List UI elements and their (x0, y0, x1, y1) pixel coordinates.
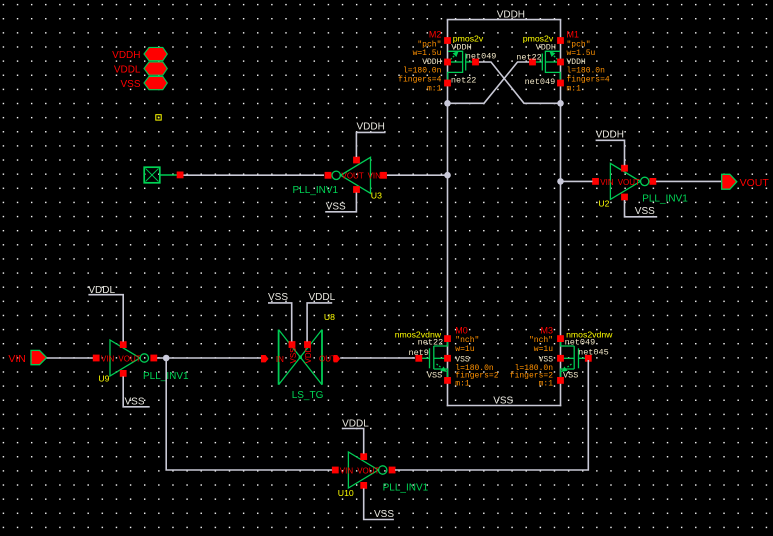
svg-text:VSS: VSS (493, 395, 513, 406)
svg-text:l=180.0n: l=180.0n (567, 67, 606, 76)
junction left column cross (444, 100, 451, 107)
svg-text:M3: M3 (540, 325, 553, 335)
svg-text:VSS: VSS (289, 347, 298, 363)
M3 drain pin (557, 335, 564, 342)
svg-text:VIN: VIN (8, 353, 26, 365)
svg-text:VDDH: VDDH (536, 42, 556, 52)
svg-text:"nch": "nch" (529, 336, 553, 345)
M0 source pin (444, 377, 451, 384)
svg-text:VDDH: VDDH (497, 9, 525, 20)
svg-text:U3: U3 (371, 190, 382, 200)
svg-text:PLL_INV1: PLL_INV1 (642, 194, 688, 205)
U8 VSS stub (268, 292, 292, 341)
U10 VDDL stub (342, 418, 369, 453)
svg-text:net22: net22 (418, 338, 444, 348)
svg-text:"pch": "pch" (567, 40, 591, 49)
svg-text:U8: U8 (324, 312, 335, 322)
U2 VDDH stub (596, 129, 625, 165)
svg-text:VDDL: VDDL (342, 418, 369, 429)
svg-text:VSS: VSS (125, 396, 145, 407)
inverter U2 (output right) (592, 163, 688, 208)
M1 gate pin (529, 59, 536, 66)
M2 bulk pin (444, 59, 451, 66)
transmission gate U8 LS_TG (261, 312, 340, 401)
svg-text:U9: U9 (98, 374, 109, 384)
M3 bulk pin (557, 355, 564, 362)
svg-text:IN: IN (276, 355, 284, 364)
wire U3 input to net22 vertical (387, 174, 448, 176)
svg-text:VDDH: VDDH (357, 122, 385, 133)
U3 VSS stub (325, 193, 356, 213)
junction net22 / U3 (444, 172, 451, 179)
M2 gate pin (472, 59, 479, 66)
svg-text:l=180.0n: l=180.0n (403, 67, 442, 76)
cross-coupling wire M1 gate to left column (448, 62, 530, 103)
svg-text:U2: U2 (598, 198, 609, 208)
inverter U10 (332, 452, 429, 498)
M3 property labels (510, 325, 553, 388)
svg-text:VIN: VIN (368, 172, 382, 181)
M2 property labels (398, 30, 441, 94)
junction U9 output / feed down (163, 355, 170, 362)
wire noConn to U3 output (184, 174, 325, 176)
transistor M2 (pmos2v, left) (448, 51, 473, 81)
svg-text:VIN: VIN (101, 354, 115, 363)
U10 VSS stub (364, 488, 395, 520)
svg-text:m:1: m:1 (427, 84, 442, 93)
junction right column cross (557, 100, 564, 107)
M0 property labels (455, 325, 498, 388)
M2 drain pin (444, 80, 451, 87)
port VIN (8, 350, 46, 365)
svg-text:net9: net9 (408, 348, 428, 358)
svg-text:OUT: OUT (319, 355, 336, 364)
svg-text:VOUT: VOUT (618, 178, 640, 187)
svg-text:net045: net045 (578, 348, 609, 358)
power pin VDDH (hexagon port) (112, 47, 167, 61)
svg-text:VOUT: VOUT (118, 354, 140, 363)
svg-text:VDDL: VDDL (309, 292, 336, 303)
svg-text:net049: net049 (525, 77, 556, 87)
svg-text:PLL_INV1: PLL_INV1 (293, 185, 339, 196)
svg-text:VDDH: VDDH (567, 58, 586, 67)
cross-coupling wire M2 gate to right column (479, 62, 561, 103)
wire U2 output to VOUT port (656, 180, 722, 182)
svg-text:VIN: VIN (600, 178, 614, 187)
svg-text:VSS: VSS (563, 371, 578, 381)
transistor M1 (pmos2v, right, mirrored) (535, 51, 560, 81)
svg-text:VDDH: VDDH (422, 58, 441, 67)
svg-text:net049: net049 (565, 338, 596, 348)
transistor M3 (nmos2vdnw, right, mirrored) (561, 339, 587, 377)
M2 source pin (444, 37, 451, 44)
svg-text:U10: U10 (338, 488, 354, 498)
svg-text:M0: M0 (455, 325, 468, 335)
wire LS_TG output to M0 gate (340, 357, 415, 359)
origin marker (156, 115, 161, 120)
port VOUT (722, 174, 770, 189)
junction net049 / U2 (557, 178, 564, 185)
svg-text:VSS: VSS (326, 201, 346, 212)
wire VIN to U9 input (47, 357, 93, 359)
svg-text:VOUT: VOUT (740, 177, 770, 189)
svg-text:fingers=4: fingers=4 (567, 76, 610, 85)
M1 drain pin (557, 80, 564, 87)
wire down from junction to U10 row (166, 358, 332, 470)
M1 bulk pin (557, 59, 564, 66)
svg-text:"nch": "nch" (455, 336, 479, 345)
svg-text:w=1.5u: w=1.5u (413, 49, 442, 58)
svg-text:w=1u: w=1u (534, 345, 553, 354)
inverter U3 (mirrored, output on left) (293, 157, 387, 201)
svg-text:net22: net22 (516, 52, 542, 62)
transistor M0 (nmos2vdnw, left) (422, 339, 448, 377)
M0 gate pin (415, 355, 422, 362)
svg-text:M2: M2 (429, 30, 442, 40)
wire U10 output to M3 gate (395, 360, 588, 470)
svg-text:VDDH: VDDH (112, 50, 140, 61)
svg-text:VOUT: VOUT (357, 466, 379, 475)
svg-text:LS_TG: LS_TG (292, 390, 324, 401)
svg-text:VSS: VSS (635, 206, 655, 217)
pin of noConn (177, 172, 184, 179)
svg-text:VOUT: VOUT (342, 172, 364, 181)
wire U9 output to LS_TG input (157, 357, 262, 359)
svg-text:VSS: VSS (268, 292, 288, 303)
svg-text:VDDL: VDDL (114, 65, 141, 76)
svg-text:net049: net049 (466, 51, 497, 61)
net049 vertical wire (right column) (560, 20, 562, 407)
svg-text:net22: net22 (451, 76, 477, 86)
net22 vertical wire (left column) (447, 20, 449, 407)
svg-text:VSS: VSS (427, 371, 442, 381)
svg-text:"pch": "pch" (417, 40, 441, 49)
inverter U9 (93, 340, 189, 384)
VSS bottom rail wire (447, 405, 562, 407)
svg-text:w=1u: w=1u (455, 345, 474, 354)
M0 drain pin (444, 335, 451, 342)
U9 VDDL stub (88, 285, 123, 342)
svg-text:m:1: m:1 (539, 379, 554, 388)
svg-text:VDDH: VDDH (596, 129, 624, 140)
svg-text:VSS: VSS (120, 79, 140, 90)
U3 VDDH stub (356, 122, 385, 157)
svg-text:VSS: VSS (374, 509, 394, 520)
power pin VSS (hexagon port) (120, 76, 167, 90)
M3 source pin (557, 377, 564, 384)
svg-text:M1: M1 (567, 30, 580, 40)
M0 bulk pin (444, 355, 451, 362)
VDDH top rail wire (447, 19, 562, 21)
M1 source pin (557, 37, 564, 44)
power pin VDDL (hexagon port) (114, 62, 167, 76)
wire net049 column to U2 input (561, 180, 593, 182)
U2 VSS stub (625, 200, 658, 217)
U8 VDDL stub (307, 292, 336, 341)
U9 VSS stub (123, 376, 150, 407)
svg-text:fingers=4: fingers=4 (398, 76, 441, 85)
svg-text:w=1.5u: w=1.5u (567, 49, 596, 58)
svg-text:VIN: VIN (340, 466, 354, 475)
svg-text:m:1: m:1 (455, 379, 470, 388)
svg-text:PLL_INV1: PLL_INV1 (383, 483, 429, 494)
svg-text:VDD: VDD (304, 346, 313, 363)
svg-text:m:1: m:1 (567, 84, 582, 93)
M1 property labels (567, 30, 610, 94)
noConn symbol (144, 167, 177, 183)
M3 gate pin (585, 355, 592, 362)
